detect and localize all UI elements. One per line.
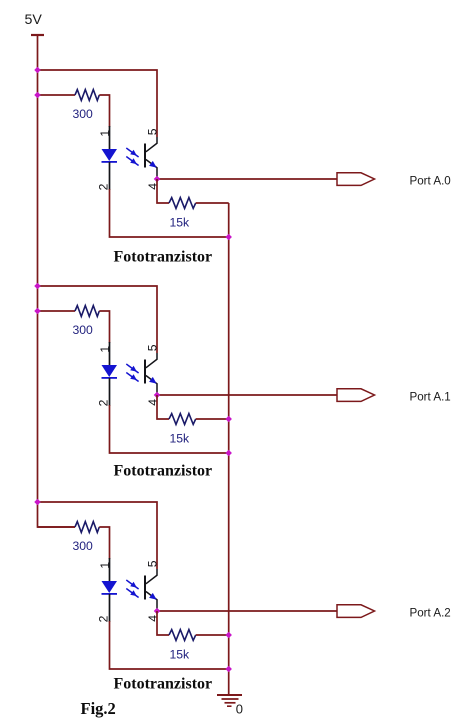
wire: top rail to collector column (stage 2): [38, 286, 158, 353]
wire: LED cathode to bottom rail (stage 3): [110, 621, 229, 669]
wire: left rail to resistor 300 (stage 1): [38, 94, 76, 96]
svg-text:300: 300: [73, 107, 94, 121]
svg-text:2: 2: [97, 615, 111, 622]
svg-text:5: 5: [146, 344, 160, 351]
svg-text:Fototranzistor: Fototranzistor: [114, 676, 213, 693]
svg-text:1: 1: [98, 562, 112, 569]
svg-text:15k: 15k: [170, 432, 191, 446]
svg-text:1: 1: [98, 130, 112, 137]
wire: right ground rail: [228, 203, 230, 694]
svg-text:5: 5: [146, 560, 160, 567]
svg-text:4: 4: [146, 399, 160, 406]
light arrow lower (stage 2): [126, 373, 138, 382]
optocoupler pin 1 lead (stage 1): [109, 126, 111, 149]
svg-text:2: 2: [97, 183, 111, 190]
phototransistor of optocoupler (stage 1): [145, 137, 157, 179]
LED of optocoupler (stage 1): [102, 149, 118, 162]
junction at emitter node (stage 2): [154, 392, 161, 399]
resistor R 15k (stage 3): [169, 630, 196, 641]
wire: emitter to port (stage 2): [157, 394, 337, 396]
junction on right rail at 15k wire (stage 3): [225, 632, 232, 639]
svg-text:2: 2: [97, 399, 111, 406]
svg-text:Fig.2: Fig.2: [81, 699, 116, 718]
light arrow lower (stage 3): [126, 589, 138, 598]
wire: resistor 300 to LED anode (stage 2): [99, 311, 109, 343]
junction on left rail at top wire (stage 1): [34, 67, 41, 74]
junction at emitter node (stage 1): [154, 176, 161, 183]
junction on right rail at bottom wire (stage 1): [225, 234, 232, 241]
resistor R 300 (stage 3): [75, 522, 99, 533]
junction on right rail at bottom wire (stage 2): [225, 450, 232, 457]
junction on left rail at resistor wire (stage 2): [34, 308, 41, 315]
wire: resistor 15k to right rail (stage 3): [196, 634, 229, 636]
phototransistor of optocoupler (stage 3): [145, 569, 157, 611]
optocoupler pin 2 lead (stage 2): [109, 378, 111, 406]
wire: emitter down to resistor 15k (stage 1): [157, 179, 169, 203]
svg-text:Port A.2: Port A.2: [410, 606, 451, 619]
resistor R 15k (stage 2): [169, 414, 196, 425]
ground symbol 0: [217, 695, 242, 706]
LED of optocoupler (stage 3): [102, 581, 118, 594]
optocoupler pin 2 lead (stage 3): [109, 594, 111, 622]
wire: resistor 300 to LED anode (stage 1): [99, 95, 109, 127]
wire: LED cathode to bottom rail (stage 2): [110, 405, 229, 453]
junction at emitter node (stage 3): [154, 608, 161, 615]
wire: left rail to resistor 300 (stage 3): [38, 526, 76, 528]
wire: top rail to collector column (stage 3): [38, 502, 158, 569]
light arrow upper (stage 1): [126, 148, 138, 157]
wire: resistor 300 to LED anode (stage 3): [99, 527, 109, 559]
optocoupler pin 2 lead (stage 1): [109, 162, 111, 190]
wire: left power rail: [38, 35, 76, 527]
svg-text:4: 4: [146, 615, 160, 622]
wire: emitter down to resistor 15k (stage 2): [157, 395, 169, 419]
svg-text:Port A.0: Port A.0: [410, 174, 451, 187]
LED of optocoupler (stage 2): [102, 365, 118, 378]
junction on left rail at top wire (stage 3): [34, 499, 41, 506]
svg-text:5: 5: [146, 128, 160, 135]
light arrow lower (stage 1): [126, 157, 138, 166]
svg-text:5V: 5V: [25, 12, 43, 28]
svg-text:4: 4: [146, 183, 160, 190]
wire: emitter to port (stage 3): [157, 610, 337, 612]
wire: emitter down to resistor 15k (stage 3): [157, 611, 169, 635]
power bar symbol 5V: [31, 34, 44, 36]
svg-text:Fototranzistor: Fototranzistor: [114, 249, 213, 266]
svg-text:Fototranzistor: Fototranzistor: [114, 463, 213, 480]
junction on left rail at resistor wire (stage 1): [34, 92, 41, 99]
light arrow upper (stage 3): [126, 580, 138, 589]
optocoupler pin 1 lead (stage 2): [109, 342, 111, 365]
junction on right rail at bottom wire (stage 3): [225, 666, 232, 673]
wire: resistor 15k to right rail corner (stage 1): [196, 202, 229, 204]
port symbol Port A.0: [337, 173, 375, 186]
resistor R 300 (stage 1): [75, 90, 99, 101]
junction on left rail at top wire (stage 2): [34, 283, 41, 290]
resistor R 300 (stage 2): [75, 306, 99, 317]
svg-text:1: 1: [98, 346, 112, 353]
light arrow upper (stage 2): [126, 364, 138, 373]
optocoupler pin 1 lead (stage 3): [109, 558, 111, 581]
svg-text:15k: 15k: [170, 216, 191, 230]
wire: emitter to port (stage 1): [157, 178, 337, 180]
wire: top rail to collector column (stage 1): [38, 70, 158, 137]
wire: LED cathode to bottom rail (stage 1): [110, 189, 229, 237]
junction on right rail at 15k wire (stage 2): [225, 416, 232, 423]
svg-text:300: 300: [73, 539, 94, 553]
port symbol Port A.2: [337, 605, 375, 618]
svg-text:Port A.1: Port A.1: [410, 390, 451, 403]
wire: left rail to resistor 300 (stage 2): [38, 310, 76, 312]
phototransistor of optocoupler (stage 2): [145, 353, 157, 395]
svg-text:300: 300: [73, 323, 94, 337]
svg-text:15k: 15k: [170, 648, 191, 662]
svg-text:0: 0: [236, 702, 243, 717]
port symbol Port A.1: [337, 389, 375, 402]
wire: resistor 15k to right rail (stage 2): [196, 418, 229, 420]
resistor R 15k (stage 1): [169, 198, 196, 209]
